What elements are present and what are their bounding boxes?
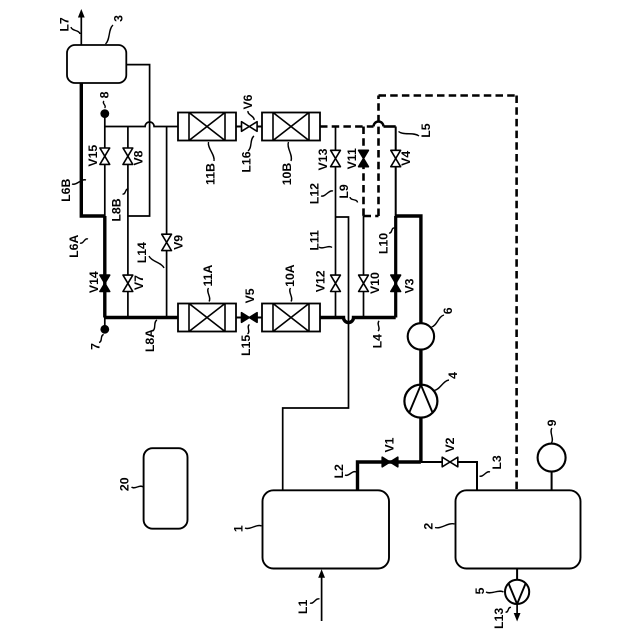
valve V14 (closed): [100, 275, 110, 283]
wire L1 inlet arrow: [321, 577, 323, 622]
component 9 (sensor): [551, 472, 553, 491]
valve V3 (closed): [391, 275, 401, 283]
heat exchanger 11B: [178, 113, 236, 141]
heat exchanger 11A: [178, 304, 236, 332]
valve V10: [359, 275, 369, 283]
svg-text:L8B: L8B: [109, 198, 123, 221]
valve V12: [331, 275, 341, 283]
svg-text:10B: 10B: [280, 163, 294, 186]
valve V6: [242, 122, 250, 132]
svg-text:6: 6: [441, 307, 455, 314]
svg-text:V10: V10: [368, 272, 382, 294]
wire L13 outlet arrow: [516, 604, 518, 614]
svg-text:L1: L1: [296, 600, 310, 615]
svg-text:10A: 10A: [283, 264, 297, 287]
wire L14 (V9 column): [166, 127, 168, 318]
svg-text:1: 1: [232, 525, 246, 532]
svg-text:11B: 11B: [204, 163, 218, 185]
wire from box 3 right side down to L8B junction: [126, 65, 149, 216]
svg-text:V1: V1: [382, 437, 396, 452]
wire L12/L11 (V13/V12 column): [335, 127, 337, 318]
svg-text:V8: V8: [131, 150, 145, 165]
svg-text:2: 2: [422, 523, 436, 530]
svg-text:L7: L7: [58, 17, 72, 32]
component 3 (condenser box): [67, 45, 126, 83]
tank 2: [456, 490, 581, 568]
thick wire L6B from box 3 bottom: [81, 83, 105, 216]
pump 5: [516, 569, 518, 581]
svg-text:3: 3: [112, 15, 126, 22]
svg-text:L15: L15: [239, 335, 253, 356]
svg-text:V12: V12: [314, 270, 328, 292]
valve V2: [442, 457, 450, 467]
dashed riser wire: [377, 96, 380, 217]
valve V5 (closed): [242, 313, 250, 323]
valve V9: [162, 234, 172, 242]
valve V8: [123, 148, 133, 156]
component 20 (controller box): [144, 448, 188, 529]
component 6 (accumulator): [408, 323, 434, 349]
svg-text:L14: L14: [135, 242, 149, 263]
pump 4: [404, 385, 437, 418]
svg-text:L9: L9: [337, 184, 351, 199]
wire L3 through V2 into tank 2: [421, 462, 477, 490]
thick branch wire to circle 6 and pump 4: [396, 216, 421, 462]
dashed right riser wire to tank 2: [515, 96, 518, 491]
thick wire L2 through V1 into tank 1: [358, 462, 421, 490]
svg-text:L8A: L8A: [143, 329, 157, 352]
svg-text:V13: V13: [316, 148, 330, 170]
svg-text:8: 8: [98, 91, 112, 98]
svg-text:L13: L13: [492, 608, 506, 629]
node 8 stub: [104, 114, 106, 127]
svg-text:9: 9: [545, 419, 559, 426]
svg-text:V4: V4: [399, 151, 413, 166]
wire L7 outlet arrow: [80, 17, 82, 46]
node 8: [100, 109, 109, 118]
wire V15 branch: [104, 127, 106, 217]
svg-text:L16: L16: [240, 151, 254, 172]
wire L8B (V8/V7 column): [127, 127, 129, 318]
svg-text:V6: V6: [241, 94, 255, 109]
valve V11 (closed): [359, 150, 369, 158]
svg-text:V15: V15: [86, 145, 100, 167]
dashed wire L9 riser with V11: [362, 127, 365, 217]
valve V15: [100, 148, 110, 156]
top header wire: [105, 122, 178, 127]
svg-text:5: 5: [473, 587, 487, 594]
node 7 stub: [104, 318, 106, 330]
valve V4: [391, 150, 401, 158]
wire L10 (V4/V3 column): [395, 127, 397, 217]
wire L15 between 11A and 10A: [236, 317, 262, 319]
heat exchanger 10A: [262, 304, 320, 332]
thick wire L6A down through V14: [103, 216, 106, 318]
dashed wire L5 from 10B to corner: [320, 125, 374, 128]
svg-text:V11: V11: [345, 148, 359, 169]
valve V1 (closed): [382, 457, 390, 467]
node 7: [100, 325, 109, 334]
svg-text:V2: V2: [443, 437, 457, 452]
svg-text:L3: L3: [490, 455, 504, 470]
svg-text:7: 7: [88, 343, 102, 350]
svg-text:L4: L4: [370, 334, 384, 349]
svg-text:L6B: L6B: [59, 179, 73, 202]
svg-text:V5: V5: [243, 288, 257, 303]
svg-text:L2: L2: [332, 464, 346, 479]
valve V13: [331, 150, 341, 158]
svg-text:L10: L10: [377, 233, 391, 254]
dashed jog wire: [364, 215, 379, 218]
wire V10 column: [363, 216, 365, 318]
valve V7: [123, 275, 133, 283]
svg-text:V14: V14: [87, 271, 101, 293]
thick wire L8A: [105, 316, 178, 319]
heat exchanger 10B: [262, 113, 320, 141]
svg-text:V9: V9: [172, 235, 186, 250]
tank 1: [263, 490, 390, 568]
thick wire L4: [320, 318, 396, 323]
svg-text:20: 20: [117, 477, 131, 491]
svg-text:11A: 11A: [201, 265, 215, 287]
svg-text:4: 4: [446, 372, 460, 379]
svg-text:V3: V3: [402, 278, 416, 293]
svg-text:L5: L5: [419, 123, 433, 138]
wire L9 branch to tank 1: [283, 217, 349, 490]
svg-text:L12: L12: [308, 183, 322, 204]
dashed top header wire: [379, 94, 517, 97]
svg-text:V7: V7: [132, 275, 146, 290]
wire L16 between 11B and 10B: [236, 126, 262, 128]
svg-text:L6A: L6A: [67, 235, 81, 258]
